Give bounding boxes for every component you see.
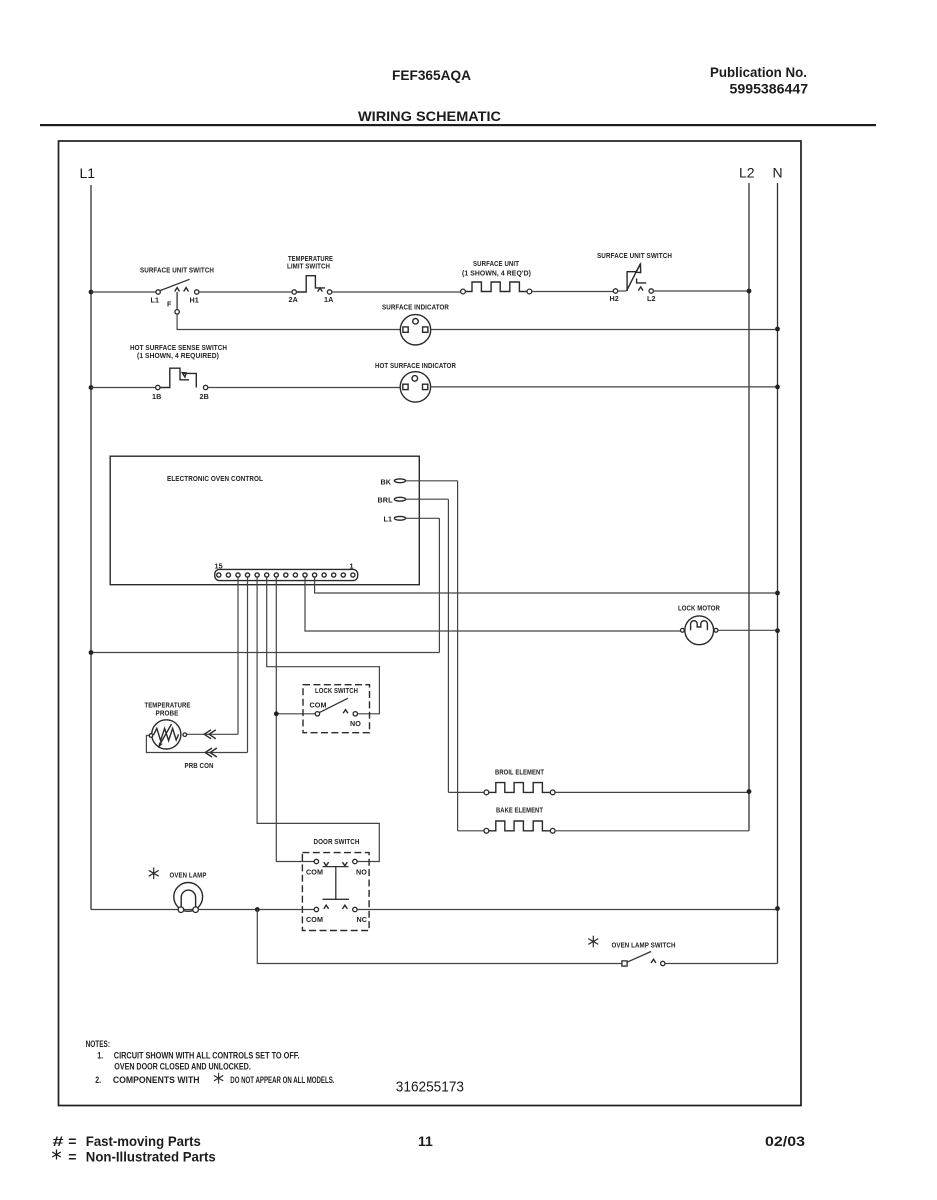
door switch lower contact marker left bbox=[324, 905, 329, 909]
surface indicator right electrode bbox=[423, 327, 428, 332]
switch LOCK SWITCH box bbox=[303, 685, 370, 733]
hot surface indicator left electrode bbox=[403, 384, 408, 389]
svg-text:15: 15 bbox=[215, 562, 223, 571]
svg-text:COM: COM bbox=[310, 701, 327, 710]
temperature probe left terminal bbox=[149, 734, 153, 738]
svg-text:N: N bbox=[773, 165, 783, 181]
door switch upper bridge bbox=[323, 866, 349, 868]
door switch upper NO terminal bbox=[353, 859, 357, 863]
svg-text:1B: 1B bbox=[152, 392, 161, 401]
surface unit switch right terminal L2 bbox=[649, 289, 653, 293]
svg-text:WIRING SCHEMATIC: WIRING SCHEMATIC bbox=[358, 108, 501, 124]
wire EOC BK drop to bake element bbox=[457, 481, 459, 831]
surface indicator left electrode bbox=[403, 327, 408, 332]
svg-text:OVEN LAMP: OVEN LAMP bbox=[170, 871, 207, 880]
svg-text:1.: 1. bbox=[97, 1051, 103, 1061]
bake element left terminal bbox=[484, 828, 489, 833]
temperature probe body bbox=[152, 720, 181, 749]
terminal F branch bbox=[175, 310, 179, 314]
wire door switch NC to N bbox=[357, 909, 777, 911]
junction indicator N bbox=[775, 327, 780, 332]
surface unit switch terminal H1 bbox=[195, 290, 199, 294]
rail N bbox=[777, 183, 779, 964]
broil element right terminal bbox=[550, 790, 555, 795]
wire L1 rail to oven lamp row bbox=[91, 909, 314, 911]
junction broil L2 bbox=[747, 789, 752, 794]
svg-text:COMPONENTS WITH: COMPONENTS WITH bbox=[113, 1075, 200, 1085]
connector pin circles bbox=[217, 573, 355, 577]
svg-text:NOTES:: NOTES: bbox=[86, 1039, 110, 1049]
lock switch contact marker bbox=[343, 710, 348, 714]
svg-text:H1: H1 bbox=[190, 296, 199, 305]
hot surface indicator right electrode bbox=[423, 384, 428, 389]
door switch upper COM terminal bbox=[314, 859, 318, 863]
surface unit switch blade bbox=[160, 279, 189, 290]
svg-text:COM: COM bbox=[306, 915, 323, 924]
surface unit heating element bbox=[465, 282, 527, 292]
svg-text:(1 SHOWN, 4 REQ'D): (1 SHOWN, 4 REQ'D) bbox=[462, 269, 531, 278]
svg-text:2B: 2B bbox=[200, 392, 209, 401]
junction pin7 lock COM bbox=[274, 711, 279, 716]
oven lamp filament loop bbox=[181, 890, 195, 909]
lock switch NO terminal bbox=[353, 712, 357, 716]
wire BK to bake element bbox=[458, 830, 484, 832]
oven lamp switch right terminal bbox=[661, 961, 665, 965]
svg-text:PROBE: PROBE bbox=[156, 709, 179, 718]
svg-text:NC: NC bbox=[357, 915, 368, 924]
junction L1 row2 bbox=[89, 385, 94, 390]
svg-text:(1 SHOWN, 4 REQUIRED): (1 SHOWN, 4 REQUIRED) bbox=[137, 351, 219, 360]
broil element left terminal bbox=[484, 790, 489, 795]
svg-text:L1: L1 bbox=[151, 296, 160, 305]
wire BRL from EOC bbox=[406, 498, 449, 500]
svg-text:2.: 2. bbox=[95, 1075, 101, 1085]
svg-text:316255173: 316255173 bbox=[396, 1079, 464, 1096]
svg-text:2A: 2A bbox=[289, 295, 298, 304]
surface indicator lamp body bbox=[400, 315, 430, 345]
oven lamp switch contact marker bbox=[651, 959, 656, 963]
wire probe left loop to pin4 bbox=[146, 736, 247, 753]
svg-text:BK: BK bbox=[381, 478, 392, 487]
oven lamp switch blade bbox=[627, 952, 651, 963]
svg-text:BRL: BRL bbox=[378, 496, 394, 505]
surface unit left terminal bbox=[461, 289, 466, 294]
svg-text:OVEN DOOR CLOSED AND UNLOCKED.: OVEN DOOR CLOSED AND UNLOCKED. bbox=[114, 1062, 251, 1072]
EOC BK terminal lug bbox=[394, 479, 405, 483]
temperature limit switch terminal 1A bbox=[327, 290, 331, 294]
wire H2 to switch body bbox=[618, 290, 627, 292]
svg-text:FEF365AQA: FEF365AQA bbox=[392, 67, 471, 83]
junction L1 row1 bbox=[89, 290, 94, 295]
junction hot surface indicator N bbox=[775, 385, 780, 390]
wire F branch down and right bbox=[177, 314, 400, 330]
door switch lower NC terminal bbox=[353, 907, 357, 911]
svg-text:SURFACE UNIT SWITCH: SURFACE UNIT SWITCH bbox=[140, 266, 214, 275]
wire hot surface indicator to N bbox=[431, 386, 778, 388]
door switch actuator bbox=[323, 867, 350, 900]
hot surface sense switch contact arrowhead bbox=[182, 373, 186, 377]
bake element body bbox=[489, 821, 551, 831]
surface unit switch terminal L1 bbox=[156, 290, 160, 294]
hot surface sense switch moving contact bbox=[183, 373, 196, 387]
svg-text:DO NOT APPEAR ON ALL MODELS.: DO NOT APPEAR ON ALL MODELS. bbox=[230, 1075, 334, 1085]
hot surface sense switch body left bbox=[160, 368, 189, 387]
wire pin7 to lock COM stub bbox=[276, 713, 315, 715]
wire probe right to chevron bbox=[187, 733, 238, 735]
note 2 asterisk mark bbox=[214, 1073, 223, 1084]
svg-text:PRB CON: PRB CON bbox=[185, 761, 214, 770]
svg-text:1: 1 bbox=[350, 562, 354, 571]
svg-text:11: 11 bbox=[418, 1133, 433, 1149]
schematic border frame bbox=[59, 141, 802, 1106]
svg-text:L1: L1 bbox=[384, 515, 393, 524]
svg-text:#: # bbox=[53, 1133, 64, 1149]
connector J1 strip bbox=[215, 569, 358, 580]
wire lock motor to N bbox=[718, 629, 778, 631]
wire pin3 to probe bbox=[237, 577, 239, 734]
wire pin5 to door switch NO bbox=[257, 577, 379, 861]
wire junction down to lamp switch row bbox=[257, 910, 622, 964]
EOC L1 terminal lug bbox=[394, 516, 405, 520]
wire oven lamp switch to N rail bbox=[665, 963, 778, 965]
header rule bbox=[40, 124, 876, 126]
connector chevron PRB bottom bbox=[205, 748, 217, 757]
hot surface sense switch terminal 1B bbox=[156, 385, 160, 389]
svg-text:F: F bbox=[167, 300, 172, 309]
footer asterisk mark bbox=[52, 1150, 61, 1160]
wire bake element to L2 end bbox=[555, 830, 749, 832]
wire pin11 to N rail bbox=[315, 577, 778, 593]
junction lock motor N bbox=[775, 628, 780, 633]
wire pin7 to lock switch COM and door switch COM bbox=[276, 577, 314, 861]
surface unit right terminal bbox=[527, 289, 532, 294]
svg-text:COM: COM bbox=[306, 868, 323, 877]
svg-text:Non-Illustrated Parts: Non-Illustrated Parts bbox=[86, 1149, 216, 1165]
wire H1 to 2A bbox=[199, 291, 292, 293]
svg-text:02/03: 02/03 bbox=[765, 1133, 805, 1149]
temperature probe thermistor zigzag bbox=[154, 728, 179, 740]
wire L1 rail to EOC L1 bbox=[91, 652, 439, 654]
svg-text:L2: L2 bbox=[739, 165, 755, 181]
lock switch COM terminal bbox=[315, 712, 319, 716]
svg-text:CIRCUIT SHOWN WITH ALL CONTROL: CIRCUIT SHOWN WITH ALL CONTROLS SET TO O… bbox=[114, 1051, 300, 1061]
svg-text:SURFACE UNIT SWITCH: SURFACE UNIT SWITCH bbox=[597, 251, 672, 260]
wire EOC L1 drop bbox=[438, 518, 440, 652]
wire 1A to surface unit bbox=[332, 291, 461, 293]
door switch upper contact marker right bbox=[343, 862, 348, 866]
svg-text:HOT SURFACE INDICATOR: HOT SURFACE INDICATOR bbox=[375, 361, 457, 370]
oven lamp switch asterisk mark bbox=[588, 936, 598, 948]
svg-text:LIMIT SWITCH: LIMIT SWITCH bbox=[287, 262, 330, 271]
rail L1 bbox=[90, 185, 92, 910]
svg-text:Fast-moving Parts: Fast-moving Parts bbox=[86, 1133, 201, 1149]
surface unit switch right contact marker bbox=[638, 287, 643, 291]
oven lamp right terminal bbox=[193, 907, 199, 913]
wire L1 to 1B bbox=[91, 387, 156, 389]
wire 2B to hot surface indicator bbox=[208, 387, 400, 389]
svg-text:H2: H2 bbox=[610, 294, 619, 303]
controller U1 ELECTRONIC OVEN CONTROL box bbox=[110, 456, 419, 585]
wire L1 from EOC bbox=[406, 517, 440, 519]
connector chevron PRB top bbox=[204, 730, 216, 739]
wire pin6 to lock switch NO bbox=[267, 577, 380, 714]
rail L2 bbox=[748, 183, 750, 831]
svg-text:L2: L2 bbox=[647, 294, 656, 303]
oven lamp asterisk mark bbox=[149, 868, 159, 880]
lock motor body bbox=[685, 616, 714, 645]
broil element body bbox=[489, 783, 551, 793]
lock switch blade bbox=[320, 698, 348, 712]
svg-text:Publication No.: Publication No. bbox=[710, 64, 807, 80]
hot surface sense switch terminal 2B bbox=[203, 385, 207, 389]
svg-text:NO: NO bbox=[356, 868, 367, 877]
surface unit switch contact marker near H1 bbox=[184, 288, 189, 292]
hot surface indicator top electrode bbox=[412, 376, 418, 382]
wire pin10 to lock motor bbox=[305, 577, 680, 631]
svg-text:BROIL ELEMENT: BROIL ELEMENT bbox=[495, 768, 544, 777]
door switch lower contact marker right bbox=[343, 905, 348, 909]
junction pin11 N bbox=[775, 591, 780, 596]
surface unit switch right terminal H2 bbox=[613, 289, 617, 293]
lock motor left terminal bbox=[681, 628, 685, 632]
svg-text:LOCK SWITCH: LOCK SWITCH bbox=[315, 686, 358, 695]
svg-text:=: = bbox=[68, 1149, 76, 1165]
svg-text:L1: L1 bbox=[80, 165, 96, 181]
junction L1 rail EOC bbox=[89, 650, 94, 655]
door switch box bbox=[302, 853, 369, 931]
wire BRL to broil element bbox=[448, 791, 484, 793]
lock motor winding bbox=[691, 621, 708, 631]
svg-text:BAKE ELEMENT: BAKE ELEMENT bbox=[496, 806, 543, 815]
svg-text:5995386447: 5995386447 bbox=[730, 81, 809, 97]
svg-text:1A: 1A bbox=[324, 295, 333, 304]
wire L2 terminal to L2 rail bbox=[653, 290, 749, 292]
temperature limit switch contact marker bbox=[318, 288, 323, 292]
junction row1 L2 bbox=[747, 289, 752, 294]
svg-text:LOCK MOTOR: LOCK MOTOR bbox=[678, 604, 721, 613]
temperature limit switch body bbox=[296, 276, 325, 292]
door switch lower COM terminal bbox=[314, 907, 318, 911]
surface indicator top electrode bbox=[413, 319, 419, 325]
hot surface indicator lamp body bbox=[400, 372, 430, 402]
oven lamp bulb bbox=[174, 883, 203, 912]
surface unit switch contact marker at F bbox=[175, 288, 180, 292]
temperature limit switch terminal 2A bbox=[292, 290, 296, 294]
wire BK from EOC bbox=[406, 480, 458, 482]
oven lamp left terminal bbox=[178, 907, 184, 913]
svg-text:SURFACE UNIT: SURFACE UNIT bbox=[473, 259, 519, 268]
svg-text:OVEN LAMP SWITCH: OVEN LAMP SWITCH bbox=[612, 941, 676, 950]
EOC BRL terminal lug bbox=[394, 497, 405, 501]
wire surface unit to H2 bbox=[532, 291, 614, 293]
svg-text:SURFACE INDICATOR: SURFACE INDICATOR bbox=[382, 303, 450, 312]
bake element right terminal bbox=[550, 828, 555, 833]
lock motor right terminal bbox=[714, 628, 718, 632]
wire surface indicator to N bbox=[431, 329, 778, 331]
wire F tap down bbox=[176, 292, 178, 310]
wire broil element to L2 bbox=[555, 791, 749, 793]
svg-text:ELECTRONIC OVEN CONTROL: ELECTRONIC OVEN CONTROL bbox=[167, 474, 263, 483]
svg-text:=: = bbox=[68, 1133, 76, 1149]
junction oven lamp row bbox=[255, 907, 260, 912]
temperature probe right terminal bbox=[183, 733, 187, 737]
wire pin4 to probe return bbox=[247, 577, 249, 752]
wire EOC BRL drop to broil element bbox=[447, 499, 449, 792]
wire L1 to surface unit switch bbox=[91, 291, 156, 293]
junction door switch N bbox=[775, 906, 780, 911]
surface unit switch right body bbox=[627, 272, 637, 291]
door switch upper contact marker left bbox=[324, 862, 329, 866]
svg-text:NO: NO bbox=[350, 719, 361, 728]
temperature probe arrow bbox=[160, 724, 172, 745]
svg-text:DOOR SWITCH: DOOR SWITCH bbox=[314, 837, 360, 846]
oven lamp switch left terminal bbox=[622, 961, 627, 966]
